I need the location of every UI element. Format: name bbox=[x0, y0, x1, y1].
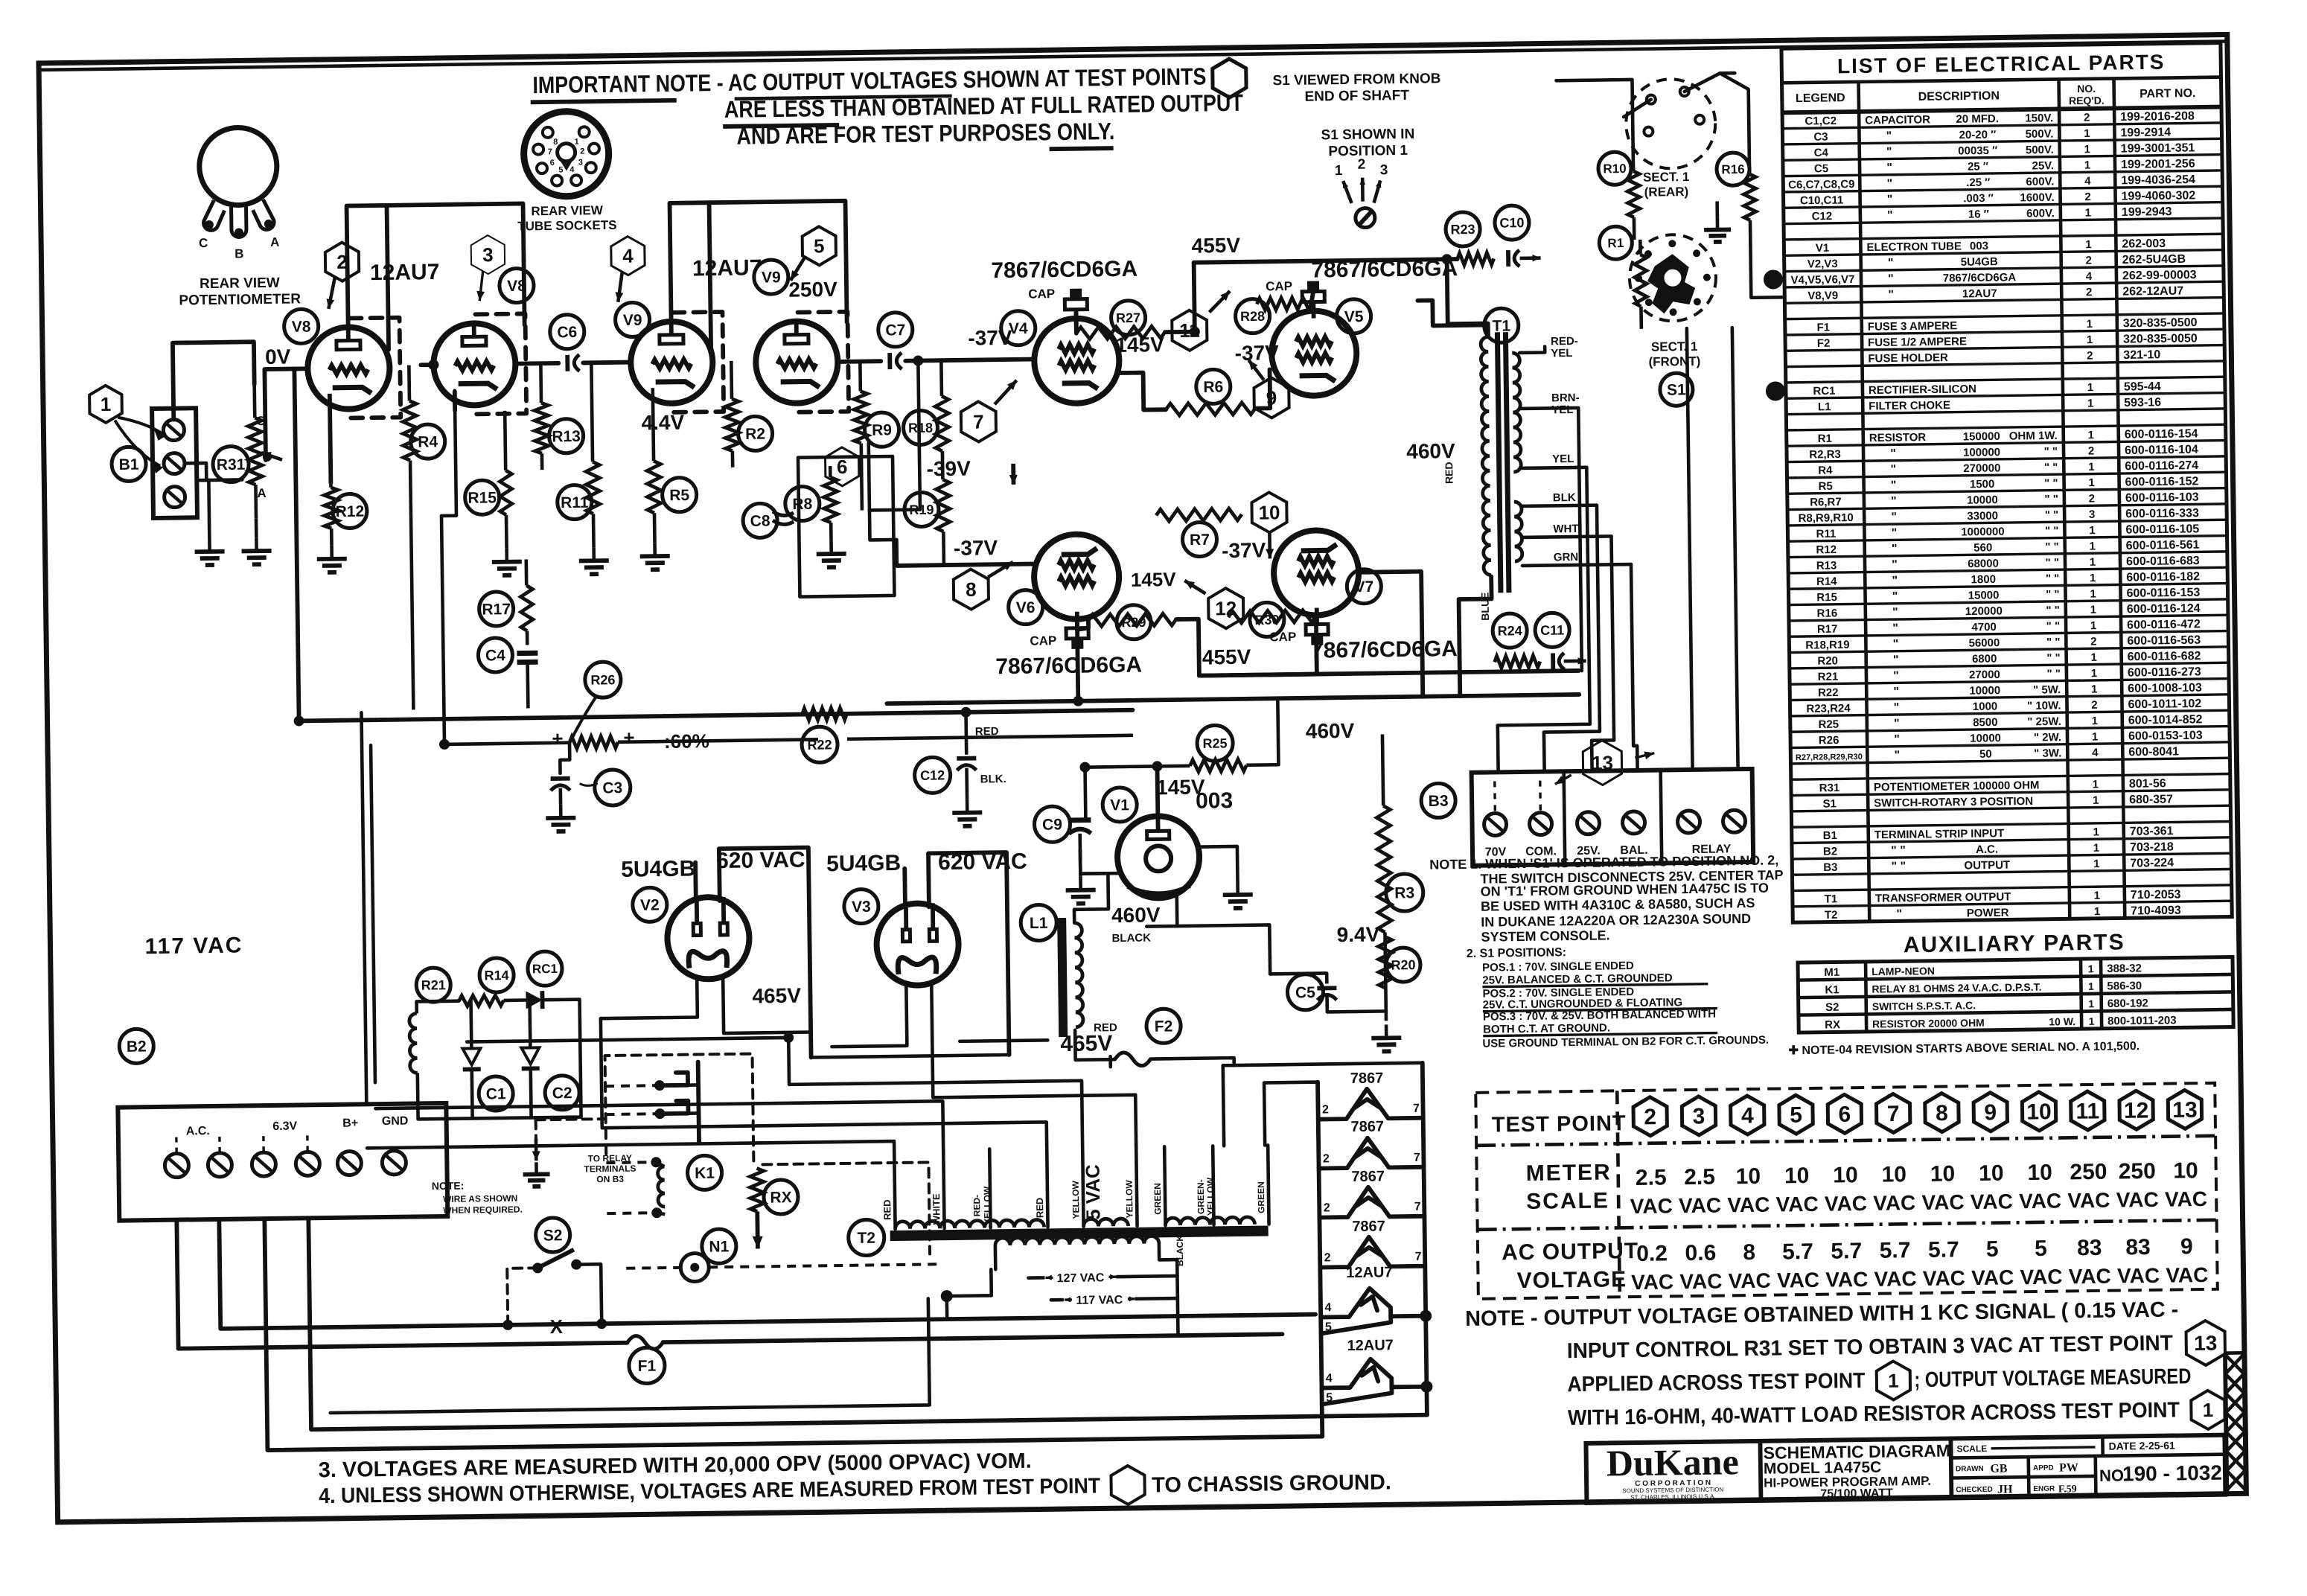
wire V3 to L1 bbox=[960, 1040, 1047, 1041]
test point hexagon in note 4 bbox=[1111, 1466, 1145, 1505]
hexagon test point 11 bbox=[1172, 310, 1207, 351]
svg-text:": " bbox=[1888, 289, 1894, 301]
svg-text:VAC: VAC bbox=[2117, 1264, 2160, 1288]
svg-text:": " bbox=[1894, 749, 1900, 762]
svg-text:600-0116-472: 600-0116-472 bbox=[2127, 618, 2201, 631]
wire AC line2 with F1 bbox=[179, 1343, 628, 1349]
wire V2 cathode down bbox=[600, 977, 698, 1018]
capacitor C4 symbol bbox=[517, 651, 537, 656]
wire V8b cathode down bbox=[453, 391, 457, 412]
R12 label circle bbox=[333, 494, 368, 529]
svg-text:SECT. 1: SECT. 1 bbox=[1651, 339, 1698, 354]
svg-text:SECT. 1: SECT. 1 bbox=[1643, 170, 1690, 185]
svg-text:10 W.: 10 W. bbox=[2049, 1015, 2075, 1027]
svg-text:BLK: BLK bbox=[1553, 491, 1576, 504]
T2 primary taps bbox=[994, 1245, 998, 1269]
triode V9b (12AU7) bbox=[756, 321, 838, 403]
svg-text:R15: R15 bbox=[468, 489, 497, 507]
wire R30 bottom down to ground bbox=[255, 518, 258, 537]
test point 6 header hexagon bbox=[1828, 1094, 1862, 1134]
svg-text:VAC: VAC bbox=[2165, 1187, 2207, 1211]
svg-text:1: 1 bbox=[2094, 890, 2101, 902]
R9 label circle bbox=[864, 412, 899, 447]
wire 460V vertical bbox=[1277, 698, 1278, 765]
R24 label circle bbox=[1493, 613, 1528, 648]
resistor R5 bbox=[653, 388, 654, 461]
svg-text:": " bbox=[1892, 606, 1898, 619]
L1 label circle bbox=[1021, 904, 1057, 941]
R28 label circle bbox=[1235, 299, 1270, 333]
svg-text:REQ'D.: REQ'D. bbox=[2069, 95, 2105, 107]
capacitor C1 electrolytic diode symbol bbox=[462, 1048, 480, 1064]
svg-text:199-2943: 199-2943 bbox=[2122, 205, 2172, 219]
svg-text:1: 1 bbox=[2088, 476, 2095, 489]
svg-text:B: B bbox=[234, 246, 244, 261]
wire box around V3 620VAC bbox=[902, 869, 907, 907]
svg-text:": " bbox=[1893, 654, 1899, 666]
svg-text:VAC: VAC bbox=[2069, 1265, 2111, 1289]
wire heater bundle run 3 bbox=[367, 1141, 894, 1157]
svg-text:20 MFD.: 20 MFD. bbox=[1956, 112, 1999, 126]
svg-text:1: 1 bbox=[2087, 398, 2094, 410]
svg-text:GREEN: GREEN bbox=[1152, 1183, 1164, 1215]
svg-text:REAR VIEW: REAR VIEW bbox=[531, 203, 604, 218]
wire tube bank top entry bbox=[1223, 1063, 1423, 1146]
svg-text:K1: K1 bbox=[695, 1165, 715, 1182]
svg-text:C4: C4 bbox=[1814, 147, 1829, 159]
svg-text:4: 4 bbox=[2084, 175, 2091, 188]
svg-text:R20: R20 bbox=[1391, 957, 1415, 972]
capacitor C8 symbol bbox=[773, 511, 794, 516]
svg-text:": " bbox=[1892, 575, 1898, 587]
svg-text:RED: RED bbox=[881, 1199, 893, 1220]
C11 label circle bbox=[1535, 613, 1570, 648]
svg-text:4: 4 bbox=[1326, 1372, 1333, 1385]
wire heater bundle run 4 bbox=[788, 1034, 1082, 1152]
heater tube 7867 row 2 element bbox=[1318, 1137, 1424, 1169]
svg-text:1: 1 bbox=[2087, 381, 2094, 394]
dashed wire to note arrow bbox=[536, 1119, 606, 1120]
svg-text:2: 2 bbox=[2087, 350, 2093, 363]
svg-text:F1: F1 bbox=[638, 1358, 657, 1375]
svg-text:R26: R26 bbox=[590, 672, 615, 687]
wire -39V node bbox=[869, 510, 897, 566]
svg-text:V9: V9 bbox=[762, 269, 781, 286]
svg-text:600-0116-273: 600-0116-273 bbox=[2128, 665, 2201, 679]
svg-text:; OUTPUT VOLTAGE MEASURED: ; OUTPUT VOLTAGE MEASURED bbox=[1914, 1364, 2191, 1392]
svg-text:" ": " " bbox=[2044, 461, 2058, 473]
terminal strip B2 bbox=[118, 1103, 447, 1221]
svg-text:VAC: VAC bbox=[1728, 1269, 1770, 1293]
S1 rear wiper lines bbox=[1684, 73, 1735, 92]
T2 primary winding below bbox=[995, 1236, 1159, 1245]
capacitor C6 symbol bbox=[565, 355, 569, 371]
wire 455V lower to T1 region bbox=[1199, 671, 1579, 676]
svg-text:C5: C5 bbox=[1295, 984, 1315, 1001]
B3 label circle bbox=[1421, 783, 1456, 818]
svg-text:R16: R16 bbox=[1817, 607, 1838, 619]
svg-text:GND: GND bbox=[382, 1115, 409, 1128]
svg-text:K1: K1 bbox=[1825, 983, 1839, 996]
svg-text:R2: R2 bbox=[745, 426, 765, 443]
svg-text:199-3001-351: 199-3001-351 bbox=[2121, 141, 2195, 155]
svg-text:1: 1 bbox=[2093, 826, 2099, 838]
svg-text:12AU7: 12AU7 bbox=[1347, 1337, 1394, 1354]
svg-text:4: 4 bbox=[1324, 1301, 1331, 1314]
svg-text:": " bbox=[1892, 527, 1898, 540]
wire V3 leads down bbox=[831, 983, 907, 1047]
RC1 diode bbox=[526, 991, 542, 1009]
resistor R22 bbox=[802, 708, 846, 721]
svg-text:VAC: VAC bbox=[1921, 1190, 1964, 1214]
svg-text:2. S1 POSITIONS:: 2. S1 POSITIONS: bbox=[1467, 946, 1566, 960]
triode V8a (12AU7) bbox=[307, 327, 390, 409]
svg-text:7867/6CD6GA: 7867/6CD6GA bbox=[991, 257, 1137, 284]
svg-text:F1: F1 bbox=[1816, 321, 1830, 333]
svg-text:R31: R31 bbox=[217, 456, 246, 474]
resistor R12 bbox=[329, 484, 333, 488]
T2 label circle bbox=[848, 1219, 884, 1256]
underline IMPORTANT NOTE bbox=[531, 100, 677, 103]
svg-text:262-003: 262-003 bbox=[2122, 237, 2166, 251]
S1 front rotor bbox=[1647, 254, 1696, 314]
T2 lead wires group3 bbox=[1164, 1146, 1165, 1225]
svg-text:8: 8 bbox=[1936, 1101, 1948, 1126]
wire heater bundle run 1 bbox=[601, 1012, 1047, 1154]
wire C6 to V9a grid bbox=[583, 360, 631, 366]
svg-text:R13: R13 bbox=[1816, 559, 1837, 572]
svg-text:C5: C5 bbox=[1814, 162, 1828, 175]
T1 secondary winding upper bbox=[1512, 353, 1521, 472]
resistor R24 bbox=[1495, 656, 1540, 668]
svg-text:595-44: 595-44 bbox=[2124, 380, 2161, 394]
test point 4 hexagon bbox=[611, 236, 645, 275]
terminal strip B3 bbox=[1472, 769, 1754, 866]
svg-text:SCALE: SCALE bbox=[1526, 1188, 1609, 1213]
svg-text:C9: C9 bbox=[1042, 816, 1062, 833]
svg-text:5.7: 5.7 bbox=[1880, 1238, 1911, 1263]
svg-text:7867: 7867 bbox=[1350, 1070, 1384, 1087]
wire V6 bottom to rail bbox=[1077, 621, 1078, 701]
wire rail down to T1 primary bbox=[1447, 259, 1488, 325]
svg-text:1: 1 bbox=[2094, 905, 2101, 918]
svg-text:": " bbox=[1892, 558, 1898, 571]
svg-text:RC1: RC1 bbox=[532, 962, 558, 976]
wire V8a plate to top rail bbox=[347, 205, 389, 351]
svg-text:500V.: 500V. bbox=[2026, 128, 2054, 141]
wire bus 6 relay bbox=[1687, 328, 1693, 770]
svg-text:X: X bbox=[549, 1315, 563, 1338]
svg-text:" ": " " bbox=[2044, 493, 2058, 505]
R30 label circle bbox=[1250, 602, 1285, 637]
svg-text:POTENTIOMETER 100000 OHM: POTENTIOMETER 100000 OHM bbox=[1874, 779, 2040, 794]
R11 label circle bbox=[557, 485, 592, 520]
capacitor C2 electrolytic diode symbol bbox=[521, 1047, 539, 1064]
svg-text:SCALE: SCALE bbox=[1956, 1443, 1987, 1455]
svg-text:": " bbox=[1886, 130, 1892, 142]
svg-text:1: 1 bbox=[2084, 159, 2091, 172]
svg-text:1: 1 bbox=[2084, 127, 2090, 140]
svg-text:455V: 455V bbox=[1202, 645, 1251, 669]
svg-text:127 VAC: 127 VAC bbox=[1057, 1271, 1105, 1285]
svg-text:B3: B3 bbox=[1823, 861, 1837, 874]
svg-text:VAC: VAC bbox=[1923, 1266, 1965, 1290]
switch S2 symbol bbox=[532, 1263, 543, 1273]
T2 tap 127 VAC bbox=[1028, 1276, 1177, 1278]
svg-text:B2: B2 bbox=[127, 1038, 147, 1056]
wire C5 connects bbox=[1270, 971, 1327, 976]
svg-text:V2,V3: V2,V3 bbox=[1807, 258, 1838, 271]
arrow ground marker mid bbox=[1011, 464, 1015, 485]
R10 label circle bbox=[1598, 152, 1632, 185]
svg-text:" ": " " bbox=[2044, 477, 2058, 490]
svg-text:R21: R21 bbox=[1818, 671, 1839, 683]
svg-text:R12: R12 bbox=[1816, 543, 1837, 556]
svg-text:": " bbox=[1893, 686, 1899, 698]
junction dot grid line V4 bbox=[913, 355, 923, 366]
junction dot V1 plate node bbox=[1079, 762, 1090, 773]
wire B1 area to ground bbox=[197, 480, 209, 538]
svg-text:5: 5 bbox=[814, 234, 825, 257]
svg-text:VAC: VAC bbox=[2166, 1263, 2208, 1287]
svg-text:600-0116-561: 600-0116-561 bbox=[2126, 539, 2200, 552]
svg-text:68000: 68000 bbox=[1968, 558, 1999, 571]
wire bus 4 bbox=[1589, 536, 1615, 770]
T1 tap GRN bbox=[1522, 564, 1631, 566]
455V rail to R23 bbox=[1194, 259, 1458, 263]
RC1 cluster R21 coil bbox=[409, 1013, 418, 1073]
rear view tube socket symbol bbox=[523, 111, 609, 197]
svg-text:9: 9 bbox=[2180, 1234, 2193, 1259]
svg-text:B3: B3 bbox=[1429, 793, 1449, 810]
svg-text:2: 2 bbox=[2090, 635, 2097, 648]
svg-text:199-4060-302: 199-4060-302 bbox=[2121, 189, 2195, 202]
wire bus 5 bbox=[1631, 564, 1638, 770]
wire R6 to V5 bbox=[1255, 369, 1271, 408]
resistor R3 bbox=[1382, 734, 1383, 805]
wire R30 wiper to V8a grid bbox=[266, 369, 267, 457]
resistor R7 screen V6-V7 bbox=[1156, 508, 1242, 522]
T1 tap YEL bbox=[1521, 467, 1586, 468]
svg-text:VAC: VAC bbox=[1971, 1265, 2014, 1289]
svg-text:1: 1 bbox=[2093, 842, 2100, 855]
B2 label circle bbox=[119, 1029, 154, 1064]
svg-text:593-16: 593-16 bbox=[2124, 396, 2161, 409]
wire V8b grid left bbox=[421, 363, 433, 367]
svg-text:6: 6 bbox=[837, 456, 848, 478]
resistor R25 bbox=[1190, 759, 1246, 772]
wire mid horizontal rail A bbox=[299, 710, 1133, 721]
svg-text:DESCRIPTION: DESCRIPTION bbox=[1918, 89, 2000, 103]
svg-text:" 2W.: " 2W. bbox=[2034, 731, 2061, 744]
svg-text:1: 1 bbox=[2090, 587, 2096, 600]
wire V6 grid from left bbox=[897, 564, 1034, 566]
electron tube V1 (003) bbox=[1117, 816, 1199, 898]
svg-text:VAC: VAC bbox=[1679, 1194, 1721, 1218]
svg-text:1500: 1500 bbox=[1970, 478, 1995, 491]
svg-text:R9: R9 bbox=[872, 421, 892, 438]
revision dot 5 bbox=[1766, 381, 1785, 400]
wire AC dot to T2 primary tap bbox=[945, 1296, 948, 1319]
svg-text:4: 4 bbox=[622, 245, 634, 267]
svg-text:16 ″: 16 ″ bbox=[1968, 208, 1989, 220]
svg-text:1: 1 bbox=[2092, 715, 2099, 727]
svg-text:DRAWN: DRAWN bbox=[1956, 1465, 1984, 1473]
ground left of R30 bbox=[208, 538, 211, 552]
svg-text:10: 10 bbox=[1979, 1161, 2004, 1186]
junction dot pentode rail bbox=[1073, 696, 1083, 706]
lamp N1 symbol bbox=[680, 1253, 709, 1281]
svg-text:R17: R17 bbox=[482, 601, 511, 619]
rectifier tube V2 (5U4GB) bbox=[667, 897, 750, 980]
wire R27 to 455V rail bbox=[1164, 263, 1195, 333]
wire R25 left to C9 node bbox=[1083, 767, 1088, 820]
svg-text:12AU7: 12AU7 bbox=[692, 255, 762, 281]
svg-text:A.C.: A.C. bbox=[1976, 843, 1998, 856]
wire heater bundle run 2 bbox=[375, 1101, 943, 1157]
svg-text:600-8041: 600-8041 bbox=[2128, 745, 2179, 759]
svg-text:VAC: VAC bbox=[1727, 1193, 1770, 1217]
svg-text:7: 7 bbox=[1415, 1251, 1422, 1263]
svg-text:C: C bbox=[256, 414, 266, 428]
svg-text:FUSE 1/2 AMPERE: FUSE 1/2 AMPERE bbox=[1868, 335, 1967, 349]
wire rail to V9b bbox=[709, 201, 847, 324]
svg-text:600V.: 600V. bbox=[2026, 207, 2055, 220]
hexagon test point 9 bbox=[1254, 377, 1289, 418]
resistor R27 plate top V4 bbox=[1076, 326, 1165, 339]
svg-text:2: 2 bbox=[2088, 445, 2095, 458]
svg-text:" 10W.: " 10W. bbox=[2027, 699, 2061, 712]
svg-text:3: 3 bbox=[1692, 1104, 1705, 1129]
svg-text:JH: JH bbox=[1997, 1483, 2013, 1496]
test point 11 header hexagon bbox=[2071, 1091, 2105, 1131]
svg-text:8500: 8500 bbox=[1973, 716, 1998, 729]
svg-text:POSITION 1: POSITION 1 bbox=[1328, 143, 1408, 159]
svg-text:C2: C2 bbox=[552, 1085, 572, 1102]
resistor R29 V6 bottom bbox=[1088, 613, 1176, 627]
T1 secondary winding lower bbox=[1514, 502, 1522, 561]
svg-text:262-5U4GB: 262-5U4GB bbox=[2122, 253, 2186, 266]
svg-text:C10: C10 bbox=[1499, 215, 1524, 230]
resistor R8 bbox=[829, 466, 832, 477]
hexagon test point 6 bbox=[825, 447, 859, 487]
svg-text:3: 3 bbox=[2089, 508, 2096, 521]
svg-text:10: 10 bbox=[1258, 501, 1280, 523]
svg-text:2: 2 bbox=[580, 147, 584, 156]
B1 label circle bbox=[112, 447, 147, 482]
svg-text:12AU7: 12AU7 bbox=[1346, 1264, 1393, 1281]
heater tube 7867 row 1 element bbox=[1318, 1088, 1423, 1120]
svg-text:1: 1 bbox=[100, 393, 112, 415]
junction dot rail A x390 bbox=[294, 715, 304, 726]
svg-text:25V.: 25V. bbox=[2032, 159, 2054, 172]
svg-text:R4: R4 bbox=[1818, 464, 1833, 476]
svg-text:VAC: VAC bbox=[1777, 1268, 1819, 1292]
S2 label circle bbox=[535, 1218, 570, 1253]
svg-text:RESISTOR: RESISTOR bbox=[1869, 431, 1927, 444]
svg-text:12: 12 bbox=[2124, 1098, 2149, 1123]
capacitor C9 symbol bbox=[1068, 817, 1091, 823]
svg-text:0.6: 0.6 bbox=[1685, 1241, 1716, 1266]
svg-text:1: 1 bbox=[574, 138, 578, 147]
wire V7 lower bbox=[1359, 572, 1423, 698]
svg-text:R14: R14 bbox=[484, 968, 508, 983]
svg-text:321-10: 321-10 bbox=[2123, 348, 2160, 362]
svg-text:4: 4 bbox=[2086, 270, 2093, 283]
svg-text:C3: C3 bbox=[1813, 130, 1828, 143]
R17 label circle bbox=[479, 592, 514, 627]
wire S2 drop right bbox=[576, 1264, 602, 1324]
svg-text:": " bbox=[1893, 638, 1899, 651]
svg-text:R27: R27 bbox=[1116, 310, 1140, 325]
svg-text:CAP: CAP bbox=[1266, 279, 1292, 293]
svg-text:800-1011-203: 800-1011-203 bbox=[2107, 1014, 2177, 1027]
svg-text:ELECTRON TUBE: ELECTRON TUBE bbox=[1866, 240, 1962, 254]
svg-text:-37V: -37V bbox=[1234, 341, 1279, 365]
R30 wiper arrow bbox=[261, 453, 282, 460]
svg-text:VAC: VAC bbox=[1874, 1267, 1916, 1291]
C12 label circle bbox=[914, 757, 951, 794]
resistor R30 V7 bottom bbox=[1228, 610, 1316, 624]
svg-text:RED: RED bbox=[1443, 462, 1455, 484]
svg-text:END OF SHAFT: END OF SHAFT bbox=[1304, 88, 1409, 105]
svg-text:F.59: F.59 bbox=[2058, 1484, 2077, 1495]
resistor R9 bbox=[858, 362, 862, 392]
C4 label circle bbox=[478, 638, 513, 673]
svg-text:BRN-: BRN- bbox=[1551, 392, 1580, 404]
svg-text:600-0116-105: 600-0116-105 bbox=[2125, 523, 2199, 536]
svg-text:7867: 7867 bbox=[1350, 1118, 1384, 1135]
test point 4 header hexagon bbox=[1730, 1096, 1764, 1135]
svg-text:" ": " " bbox=[1891, 861, 1906, 873]
svg-text:1000: 1000 bbox=[1973, 700, 1998, 713]
svg-text:NOTE:: NOTE: bbox=[432, 1180, 465, 1193]
svg-text:R23: R23 bbox=[1450, 222, 1475, 237]
svg-text:R29: R29 bbox=[1121, 615, 1146, 630]
svg-text:6800: 6800 bbox=[1972, 653, 1997, 665]
svg-text:+: + bbox=[552, 727, 564, 750]
T2 lead wires group2 bbox=[1082, 1148, 1083, 1227]
V2 label circle bbox=[633, 887, 668, 922]
wire bus 3 bbox=[1541, 505, 1601, 772]
svg-text:117 VAC: 117 VAC bbox=[144, 933, 243, 959]
svg-text:": " bbox=[1887, 209, 1893, 222]
test point 5 hexagon bbox=[802, 226, 836, 266]
svg-text:1: 1 bbox=[2089, 524, 2096, 537]
svg-text:YELLOW: YELLOW bbox=[1205, 1177, 1216, 1216]
svg-text:7: 7 bbox=[1413, 1102, 1420, 1115]
wire V1 plate up bbox=[1155, 766, 1161, 816]
F1 label circle bbox=[629, 1347, 666, 1384]
svg-text:13: 13 bbox=[1592, 751, 1613, 773]
svg-text:145V: 145V bbox=[1131, 568, 1177, 591]
dashed run through N1 bbox=[626, 1266, 680, 1270]
svg-text:": " bbox=[1890, 447, 1896, 460]
svg-text:PART NO.: PART NO. bbox=[2140, 87, 2195, 100]
svg-text:WIRE AS SHOWN: WIRE AS SHOWN bbox=[443, 1193, 517, 1204]
svg-text:5U4GB: 5U4GB bbox=[1961, 255, 1998, 269]
svg-text:6.3V: 6.3V bbox=[272, 1120, 297, 1133]
svg-text:11: 11 bbox=[2075, 1099, 2099, 1123]
ground under R30 bbox=[255, 537, 258, 551]
svg-text:GREEN: GREEN bbox=[1256, 1181, 1267, 1213]
wire V4 top cap rail bbox=[1074, 312, 1079, 333]
pentode V7 (7867/6CD6GA) bbox=[1273, 530, 1359, 616]
svg-text:C: C bbox=[199, 236, 208, 250]
wire V8a cathode down bbox=[330, 394, 331, 484]
svg-text:N1: N1 bbox=[709, 1238, 729, 1255]
svg-text:SWITCH-ROTARY 3 POSITION: SWITCH-ROTARY 3 POSITION bbox=[1874, 795, 2033, 810]
